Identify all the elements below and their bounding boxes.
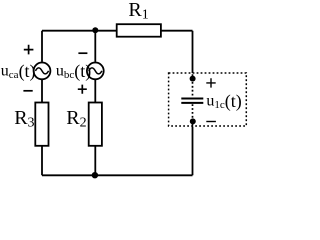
svg-text:ubc(t): ubc(t): [56, 61, 91, 82]
svg-text:uca(t): uca(t): [1, 61, 36, 82]
svg-text:u1c(t): u1c(t): [206, 91, 241, 112]
